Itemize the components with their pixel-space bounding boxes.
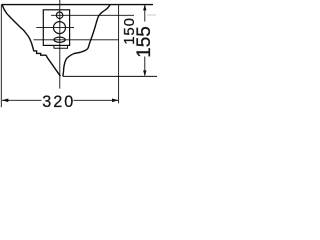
trap inner plinth bbox=[53, 45, 55, 48]
big circle bbox=[54, 22, 66, 34]
small circle bbox=[56, 12, 63, 19]
svg-text:320: 320 bbox=[42, 93, 75, 111]
155 dimension line top bbox=[144, 5, 146, 22]
overflow ellipse bbox=[54, 37, 65, 42]
small circle centerline bbox=[51, 14, 134, 16]
big circle centerline bbox=[36, 26, 74, 28]
right bowl profile bbox=[63, 5, 110, 77]
left extension line bbox=[0, 5, 2, 108]
320 dimension line bbox=[2, 99, 42, 101]
svg-text:155: 155 bbox=[134, 26, 155, 58]
arrow left of 320 bbox=[2, 99, 9, 103]
drain reference line bbox=[63, 75, 157, 77]
arrow up of 155 bbox=[143, 4, 146, 10]
washbasin front-view dimension drawing 157x113 bbox=[0, 0, 157, 113]
right extension line (320) bbox=[118, 5, 120, 104]
rim top line with right extension bbox=[2, 4, 154, 6]
arrow right of 320 bbox=[112, 99, 119, 103]
ellipse centerline (extends to right extension line) bbox=[34, 39, 119, 41]
left bowl profile bbox=[2, 5, 60, 76]
155 dimension line bottom bbox=[144, 57, 146, 76]
vertical centerline bbox=[59, 0, 61, 89]
arrow down of 155 bbox=[143, 70, 146, 76]
faucet rectangle bbox=[43, 10, 69, 46]
